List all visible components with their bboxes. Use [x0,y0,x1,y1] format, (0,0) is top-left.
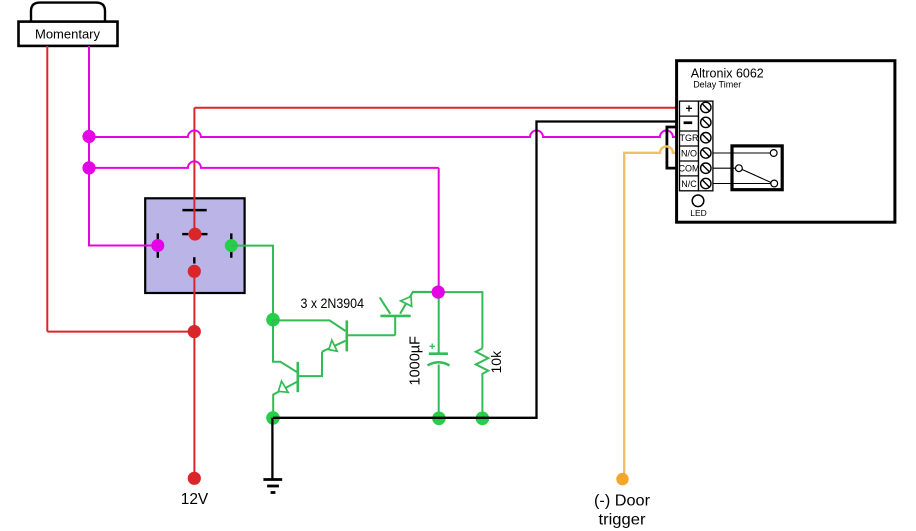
transistor Q2 emitter arrow [329,340,337,351]
svg-text:(-) Door: (-) Door [594,493,651,510]
relay K1 body [145,198,244,293]
wire red: SW1 left pin down [46,46,48,332]
svg-text:1000µF: 1000µF [408,336,424,386]
wire red: horizontal to 12V junction [47,331,194,333]
transistor Q1 emitter arrow [278,381,288,392]
wire magenta: vertical down to capacitor node [438,168,440,293]
junction magenta: cap feed node [82,161,95,174]
transistor Q1 emitter lead with arrow [273,382,297,418]
wire black: ground drop [271,418,273,480]
wire thin: N/O to relay contact [713,152,771,154]
wire green: node A to Q2 collector [273,320,346,331]
timer relay contact box [732,146,782,190]
transistor Q2 base bar [345,320,348,351]
wire red: top horizontal to Altronix + terminal [194,107,680,109]
momentary pushbutton switch SW1 body [19,22,118,46]
capacitor C1 plus sign [430,344,436,350]
svg-text:12V: 12V [181,491,209,508]
svg-text:COM: COM [679,164,700,174]
relay K1 pin 87a bar [182,209,206,212]
relay K1 pin 87 red dot [189,228,202,241]
wire green: cap node to resistor top [413,292,483,348]
relay K1 pin 87 ticks [182,233,207,235]
capacitor C1 bottom lead [438,365,440,419]
wire green: node A down to Q1 collector [273,320,297,373]
wire black: ground rail to Altronix minus terminal [273,122,680,418]
contact point N/O [770,150,777,157]
junction green: cap bottom on ground rail [432,412,446,426]
svg-text:LED: LED [690,208,707,218]
transistor Q3 emitter arrow [401,296,412,306]
capacitor C1 top plate [429,352,448,355]
relay K1 pin 85 ticks [157,233,159,257]
ground symbol [263,480,282,493]
wire green: relay pin 86 to transistor node [231,246,273,320]
terminal block screw column [699,101,713,191]
relay K1 pin 86 green dot [225,239,238,252]
momentary pushbutton switch SW1 button cap [31,3,105,22]
capacitor C1 curved plate [428,362,450,365]
terminal block label column [680,101,699,191]
svg-text:N/O: N/O [681,148,697,158]
svg-text:N/C: N/C [681,179,697,189]
contact point N/C [771,180,778,187]
node 12V supply terminal dot [188,472,201,485]
relay K1 pin 30 red dot [188,265,201,278]
wire thin: COM to relay contact [713,167,736,169]
svg-text:trigger: trigger [599,512,647,529]
svg-text:3 x 2N3904: 3 x 2N3904 [301,296,365,312]
resistor R1 zigzag [476,348,489,418]
terminal screw slots [702,104,709,187]
junction green: Q1 emitter on ground rail [266,411,280,425]
relay K1 pin 30 tick [193,257,195,263]
terminal block label row dividers [680,116,699,176]
wire black: jumper minus to COM [667,127,679,168]
transistor Q2 base lead [348,334,395,336]
transistor Q1 base lead to Q2 emitter [299,352,322,376]
junction green: node A (Q1 collector / Q2 collector / relay) [266,313,280,327]
terminal label minus [684,121,693,124]
wire yellow: door trigger to N/O with hop [624,146,680,478]
LED indicator [692,195,704,207]
wire red: vertical from top rail into relay pin 87 [193,108,195,234]
transistor Q3 base bar [380,315,410,318]
wire thin: N/C to relay contact [713,183,771,185]
wire magenta: to capacitor node with hop [89,161,439,168]
junction magenta: TGR tap node [82,130,95,143]
svg-text:+: + [685,102,692,116]
transistor Q1 base bar [296,362,299,392]
node yellow: door trigger terminal dot [616,473,628,485]
Altronix 6062 delay timer box [677,61,895,223]
svg-text:Altronix 6062: Altronix 6062 [691,66,764,80]
junction red: 12V feed node [188,325,201,338]
transistor Q3 emitter lead [400,292,439,314]
transistor Q3 base lead [394,316,396,335]
svg-text:Delay Timer: Delay Timer [693,80,741,90]
wire red: relay pin 30 down to 12V terminal [193,271,195,478]
relay K1 pin 86 ticks [230,233,232,257]
wire magenta: SW1 right pin down [88,46,90,247]
contact point COM [736,165,743,172]
wire magenta: into relay pin 85 [89,245,153,247]
junction green: resistor bottom on ground rail [476,412,490,426]
terminal screws [701,102,711,188]
junction magenta: capacitor top node [432,286,445,299]
svg-text:TGR: TGR [680,133,699,143]
svg-text:Momentary: Momentary [35,27,101,42]
relay K1 pin 85 magenta dot [151,239,164,252]
wire magenta: to Altronix TGR with hops [89,131,680,138]
capacitor C1 top lead [438,293,440,354]
transistor Q3 collector lead [380,298,391,314]
contact switch arm [742,170,771,183]
svg-text:10k: 10k [488,350,504,374]
transistor Q2 emitter lead with arrow [322,341,345,352]
